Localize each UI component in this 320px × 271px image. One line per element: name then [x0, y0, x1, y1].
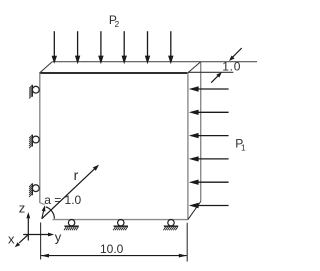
coordinate axis z	[26, 212, 30, 241]
plate back right edge	[200, 62, 202, 202]
crack mouth hook	[40, 203, 45, 205]
plate left edge	[39, 72, 41, 203]
coordinate axis x	[15, 235, 28, 248]
svg-text:y: y	[55, 230, 62, 245]
crack length arrow a	[42, 205, 46, 218]
plate bottom edge	[53, 219, 189, 221]
bottom roller support 1	[64, 220, 79, 231]
width dimension extension line left	[40, 223, 42, 260]
plate front right edge	[187, 72, 189, 220]
P2 load arrow 3	[98, 31, 103, 64]
plate front top edge	[40, 72, 188, 74]
P1 load arrow 6	[189, 203, 229, 208]
svg-text:10.0: 10.0	[100, 242, 124, 256]
coordinate axis y	[23, 233, 54, 237]
width dimension line 10.0	[41, 254, 187, 258]
left roller support 1	[29, 85, 39, 99]
P2 load arrow 4	[122, 31, 127, 64]
crack tip angle arc	[46, 207, 55, 219]
svg-text:r: r	[74, 167, 79, 183]
front top edge extension line for 1.0 dimension	[188, 71, 233, 73]
bottom roller support 3	[163, 220, 178, 231]
P1 load arrow 2	[189, 110, 229, 115]
P2 load arrow 5	[145, 31, 150, 64]
P1 load arrow 3	[189, 133, 229, 138]
svg-text:z: z	[19, 200, 26, 215]
plate back top edge with dimension extension line	[52, 61, 257, 63]
crack tip radial arrow r	[42, 165, 99, 219]
left roller support 2	[29, 135, 39, 149]
thickness dimension 1.0 lower arrow	[211, 72, 222, 83]
top-left corner depth diagonal	[40, 62, 52, 73]
width dimension extension line right	[186, 223, 188, 262]
P2 load arrow 1	[52, 31, 57, 64]
P1 load arrow 4	[189, 156, 229, 161]
P2 load arrow 6	[168, 31, 173, 64]
svg-text:1: 1	[241, 142, 246, 152]
svg-text:1.0: 1.0	[222, 59, 241, 73]
left roller support 3	[29, 183, 39, 197]
P1 load arrow 5	[189, 180, 229, 185]
svg-text:a = 1.0: a = 1.0	[44, 193, 81, 207]
thickness dimension 1.0 upper arrow	[229, 48, 242, 61]
top-right corner depth diagonal	[188, 62, 201, 73]
svg-text:x: x	[8, 232, 15, 247]
P1 load arrow 1	[189, 86, 229, 91]
P2 load arrow 2	[75, 31, 80, 64]
bottom-right corner depth diagonal	[188, 202, 201, 220]
bottom roller support 2	[113, 220, 128, 231]
svg-text:2: 2	[115, 19, 120, 29]
